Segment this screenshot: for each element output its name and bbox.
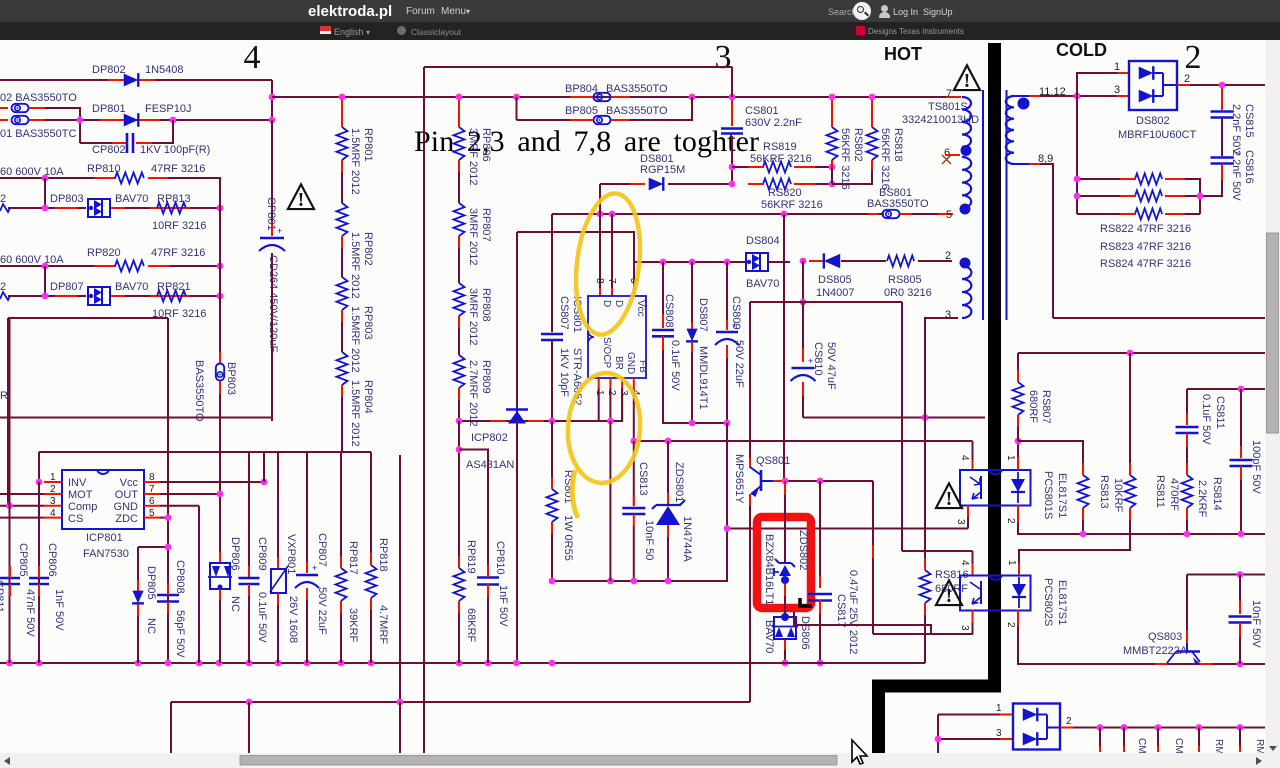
svg-text:68KRF: 68KRF: [465, 608, 477, 643]
svg-text:630V 2.2nF: 630V 2.2nF: [745, 117, 802, 129]
vertical x39 to pin1: [38, 452, 40, 482]
verticals to bottom edge: [170, 702, 172, 753]
capacitor CP805: [0, 577, 20, 580]
pin2 wire left: [0, 493, 44, 495]
junction dots y214: [597, 211, 604, 218]
svg-text:DS806: DS806: [799, 616, 811, 650]
shunt ref ICP802 AS431AN: [490, 420, 506, 422]
pin7 wire right: [160, 493, 220, 495]
wire y581 dots: [549, 578, 556, 585]
transformer hot winding 2: [962, 157, 971, 208]
junction dot 1077,96: [1074, 93, 1081, 100]
junction dot 220,266: [217, 263, 224, 270]
vertical x264 up: [263, 452, 265, 482]
svg-text:ZDS801: ZDS801: [673, 462, 685, 502]
dual diode DS802 MBRF10U60CT: [1129, 61, 1177, 110]
yellow tail: [572, 470, 578, 518]
wire y262 Vcc rail: [634, 261, 745, 263]
svg-text:RS824 47RF 3216: RS824 47RF 3216: [1100, 258, 1191, 270]
svg-text:4.7MRF: 4.7MRF: [377, 605, 389, 644]
vertical x9 318-663: [9, 318, 11, 663]
resistor RP813: [157, 203, 186, 214]
resistor RP808: [458, 248, 460, 283]
capacitor CS817: [819, 481, 821, 586]
wire pin4 PCS802S y551: [972, 551, 974, 563]
svg-text:3: 3: [945, 309, 951, 321]
bead BS801: [868, 213, 878, 215]
junction dot x272 y97: [269, 94, 276, 101]
svg-text:50V 47uF: 50V 47uF: [825, 342, 837, 390]
wire DS pack pin3: [938, 738, 1002, 740]
horizontal scrollbar: [0, 753, 1265, 768]
wire corner x272 down: [271, 80, 273, 120]
cold bus y353: [1018, 352, 1265, 354]
capacitor CS815: [1221, 88, 1223, 110]
capacitor CP807 electrolytic: [306, 452, 308, 562]
svg-text:TS801S: TS801S: [928, 101, 968, 113]
vertical bus x220 segments: [219, 178, 221, 352]
svg-text:CS813: CS813: [637, 462, 649, 496]
svg-text:RP807: RP807: [480, 208, 492, 242]
svg-text:1: 1: [1005, 455, 1016, 461]
vertical scrollbar: [1265, 40, 1280, 768]
svg-text:!: !: [946, 488, 953, 510]
red annotation rectangle: [757, 517, 811, 608]
capacitor CS809 electrolytic: [726, 262, 728, 320]
wire y441 cold RS807: [972, 441, 974, 460]
cold bus y318: [1053, 317, 1265, 319]
svg-text:CM: CM: [1173, 738, 1184, 754]
resistor RS813 10KRF: [1078, 475, 1089, 508]
diode DP801: [124, 114, 139, 127]
svg-text:CS810: CS810: [812, 342, 824, 376]
pin5 wire right: [160, 517, 168, 519]
svg-text:RM: RM: [1213, 739, 1224, 755]
svg-text:CS: CS: [68, 513, 83, 525]
junction dot 732,167: [729, 164, 736, 171]
resistor RP803: [341, 248, 343, 277]
resistor RS805 row: [887, 256, 914, 267]
pin4 wire left: [0, 517, 44, 519]
junction dots y421: [456, 418, 463, 425]
wire DP802 row: [0, 79, 120, 81]
junction dot 45,266: [42, 263, 49, 270]
diode DP805 NC: [137, 547, 139, 590]
svg-text:26V 1608: 26V 1608: [287, 596, 299, 643]
svg-text:BAS3550TO: BAS3550TO: [867, 198, 929, 210]
resistor RP809: [458, 328, 460, 355]
junction dot x272 y120: [269, 117, 276, 124]
wire DP807 row: [0, 292, 10, 300]
vertical IC pin2 to 581: [609, 421, 611, 581]
svg-text:3MRF 2012: 3MRF 2012: [467, 288, 479, 345]
wire y625 step: [794, 612, 931, 634]
capacitor CP801 electrolytic: [271, 120, 273, 232]
svg-text:2.7MRF 2012: 2.7MRF 2012: [467, 360, 479, 427]
svg-text:EL817S1: EL817S1: [1056, 473, 1068, 518]
svg-text:COLD: COLD: [1056, 40, 1107, 60]
dual diode DP803 BAV70: [88, 199, 110, 217]
svg-text:OUT: OUT: [115, 489, 139, 501]
svg-text:3: 3: [996, 728, 1002, 739]
optocoupler PCS802S EL817S1: [960, 576, 1031, 611]
svg-text:4: 4: [959, 560, 970, 566]
secondary top lead: [1014, 95, 1029, 97]
junction dot 803,261: [800, 258, 807, 265]
wire up to DS802 pin1: [1077, 73, 1117, 96]
svg-text:CP811: CP811: [0, 580, 5, 613]
svg-text:CS816: CS816: [1243, 150, 1255, 184]
wire y302: [750, 301, 902, 303]
svg-text:EL817S1: EL817S1: [1056, 580, 1068, 625]
svg-text:RS820: RS820: [768, 187, 802, 199]
vertical x938: [937, 715, 939, 754]
svg-text:CP801: CP801: [265, 197, 277, 231]
transformer hot winding 3: [962, 266, 971, 318]
svg-text:56KRF 3216: 56KRF 3216: [750, 153, 812, 165]
resistor RS807 680RF: [1017, 353, 1019, 370]
svg-text:1W 0R55: 1W 0R55: [562, 515, 574, 561]
junction dot 220,208: [217, 205, 224, 212]
junction dot 925,417: [922, 414, 929, 421]
svg-text:RP809: RP809: [480, 360, 492, 394]
svg-text:2.2KRF: 2.2KRF: [1196, 480, 1208, 518]
vertical x727 through 529 corner 581: [552, 441, 727, 581]
svg-text:BP803: BP803: [225, 362, 237, 395]
svg-text:CP805: CP805: [17, 543, 29, 577]
svg-text:1KV 100pF(R): 1KV 100pF(R): [140, 144, 210, 156]
junction dot 727,529: [724, 525, 731, 532]
junction dot 45,296: [42, 293, 49, 300]
svg-text:DP807: DP807: [50, 281, 84, 293]
svg-text:1N5408: 1N5408: [145, 64, 184, 76]
svg-text:CS807: CS807: [558, 296, 570, 330]
wire RS807 to RS813: [1018, 441, 1083, 463]
svg-text:Pin 2,3 and 7,8 are toghte: Pin 2,3 and 7,8 are toghter: [414, 125, 759, 158]
capacitor CP808: [157, 594, 179, 597]
resistor RP804: [341, 322, 343, 352]
wire y417 CS810 bottom: [803, 417, 985, 419]
diode DS807 MMDL914T1: [691, 262, 693, 322]
svg-text:R: R: [0, 390, 8, 402]
capacitor 10nF 50V: [1239, 575, 1241, 602]
svg-text:2: 2: [1185, 40, 1202, 76]
svg-text:RM: RM: [1254, 739, 1265, 755]
svg-text:RGP15M: RGP15M: [640, 164, 685, 176]
vertical x39 pin1 down: [38, 482, 40, 663]
svg-text:MMBT2222A: MMBT2222A: [1123, 645, 1188, 657]
capacitor CS808: [662, 262, 664, 314]
resistor RS801: [551, 421, 553, 487]
PCS801S pin1 wire: [1017, 457, 1019, 470]
beads BP804 BP805 loop: [516, 97, 518, 120]
wire pin 11.12 to DS802 pin3: [1040, 95, 1117, 97]
svg-text:2.2nF 50V: 2.2nF 50V: [1230, 104, 1242, 155]
svg-text:CS811: CS811: [1214, 396, 1226, 429]
svg-text:GND: GND: [114, 501, 139, 513]
pin8 wire right: [160, 481, 264, 483]
capacitor CS811: [1186, 389, 1188, 413]
resistor RS811 470RF: [1129, 353, 1131, 463]
cold bus y534: [1017, 533, 1265, 535]
junction dot 832,167: [829, 164, 836, 171]
svg-text:3: 3: [955, 519, 966, 525]
svg-text:QS801: QS801: [756, 455, 790, 467]
vertical pins 8 7 to IC: [599, 214, 601, 288]
svg-text:1KV 10pF: 1KV 10pF: [558, 348, 570, 397]
bead BP803 BAS3550TO: [219, 352, 221, 364]
diode DP802: [124, 74, 139, 87]
diode DS801 row y184: [600, 183, 643, 185]
vertical x517 down: [516, 232, 518, 421]
resistor RS802: [831, 100, 833, 127]
svg-text:10nF 50: 10nF 50: [643, 520, 655, 560]
svg-text:RP818: RP818: [377, 538, 389, 572]
zener ZDS802 BZX84B16LT1: [784, 481, 786, 495]
capacitor CP802 loop: [80, 142, 122, 144]
svg-text:BP805: BP805: [565, 105, 598, 117]
svg-text:RP821: RP821: [157, 281, 191, 293]
svg-text:RP810: RP810: [87, 163, 121, 175]
vertical x400: [399, 455, 401, 702]
junction dot 45,208: [42, 205, 49, 212]
svg-text:BAV70: BAV70: [763, 620, 775, 653]
IC bottom pin stubs: [598, 378, 600, 388]
yellow ellipse around pins 8 7: [569, 190, 648, 338]
wire DS801 corner: [599, 184, 601, 214]
svg-text:1N4007: 1N4007: [816, 287, 855, 299]
capacitor CP806: [29, 577, 49, 580]
wire box top y452: [39, 451, 371, 453]
resistor RS819 row: [732, 166, 762, 168]
svg-text:3MRF 2012: 3MRF 2012: [467, 128, 479, 185]
svg-text:8: 8: [594, 278, 605, 284]
resistor RP801: [341, 100, 343, 127]
svg-text:RS805: RS805: [888, 274, 922, 286]
warning triangle top right: [954, 65, 980, 90]
svg-text:470RF: 470RF: [1168, 478, 1180, 511]
bus dots y663: [6, 660, 13, 667]
svg-text:RP804: RP804: [362, 380, 374, 414]
svg-text:MBRF10U60CT: MBRF10U60CT: [1118, 129, 1197, 141]
pin6 wire right: [160, 505, 199, 507]
transformer core line hot: [982, 90, 984, 320]
svg-text:2: 2: [1005, 622, 1016, 628]
svg-text:RP801: RP801: [362, 128, 374, 162]
svg-text:CP807: CP807: [316, 533, 328, 567]
svg-text:RP802: RP802: [362, 232, 374, 266]
svg-text:BAV70: BAV70: [115, 193, 148, 205]
junction dot 220,296: [217, 293, 224, 300]
capacitor CS801: [731, 100, 733, 126]
svg-text:DS804: DS804: [746, 235, 780, 247]
wire corner 732 y67: [731, 67, 733, 97]
wire DP803 row: [8, 207, 86, 209]
svg-text:CS815: CS815: [1243, 104, 1255, 138]
PCS802S pin1 red: [1018, 563, 1020, 575]
svg-text:CM: CM: [1136, 738, 1147, 754]
svg-text:2: 2: [1005, 518, 1016, 524]
wire DS802 out y85: [1190, 84, 1265, 86]
warning triangle PCS802S: [936, 580, 962, 605]
pin3 wire left: [0, 505, 44, 507]
svg-text:BR: BR: [613, 356, 624, 370]
svg-text:FB: FB: [637, 360, 648, 373]
wire y529: [727, 528, 968, 530]
svg-text:60 600V 10A: 60 600V 10A: [0, 166, 64, 178]
svg-text:RP817: RP817: [347, 541, 359, 575]
svg-text:39KRF: 39KRF: [347, 608, 359, 643]
wire transformer pin3 down: [925, 318, 958, 551]
svg-text:47RF 3216: 47RF 3216: [151, 247, 205, 259]
svg-text:VXP801: VXP801: [285, 534, 297, 574]
junction dot 820,663: [817, 660, 824, 667]
resistor RP807: [458, 172, 460, 203]
wire y727 bottom right: [1073, 727, 1265, 729]
transformer secondary winding: [1006, 96, 1014, 164]
svg-text:5: 5: [946, 209, 952, 221]
svg-text:PCS801S: PCS801S: [1042, 471, 1054, 519]
warning triangle near CP801: [288, 184, 314, 209]
resistor RP806: [458, 100, 460, 127]
svg-text:INV: INV: [68, 477, 87, 489]
svg-text:AS431AN: AS431AN: [466, 459, 514, 471]
svg-text:CP806: CP806: [46, 543, 58, 577]
wire RP804 bottom: [341, 397, 343, 452]
junction dot 459,449: [456, 446, 463, 453]
svg-text:01 BAS3550TC: 01 BAS3550TC: [0, 128, 76, 140]
warning triangle PCS801S: [936, 483, 962, 508]
svg-text:!: !: [946, 585, 953, 607]
resistor RP821: [157, 291, 186, 302]
svg-text:2: 2: [1066, 716, 1072, 727]
svg-text:GND: GND: [625, 352, 636, 374]
second bus y702: [171, 701, 750, 703]
junction dot 727,423: [724, 420, 731, 427]
svg-text:D: D: [613, 300, 624, 307]
resistor RP818 4.7MRF: [370, 452, 372, 565]
vertical x803 CS810: [802, 261, 804, 302]
svg-text:FESP10J: FESP10J: [145, 103, 191, 115]
svg-text:2: 2: [0, 193, 6, 205]
svg-text:3: 3: [715, 40, 732, 76]
wire RP810 row: [0, 177, 112, 179]
svg-text:3MRF 2012: 3MRF 2012: [467, 208, 479, 265]
vertical x8 318-505: [7, 318, 9, 506]
svg-text:3: 3: [1114, 84, 1120, 96]
svg-text:50V 22uF: 50V 22uF: [733, 340, 745, 388]
pin 2 stub: [1177, 84, 1190, 86]
svg-text:56pF 50V: 56pF 50V: [174, 610, 186, 658]
secondary bottom lead 8,9: [1014, 163, 1029, 165]
junction dots y262: [660, 259, 667, 266]
transistor QS801 MPS651Y: [760, 470, 763, 491]
svg-text:RS823 47RF 3216: RS823 47RF 3216: [1100, 241, 1191, 253]
svg-text:DP801: DP801: [92, 103, 126, 115]
svg-text:MMDL914T1: MMDL914T1: [697, 346, 709, 410]
junction dot 692,423: [689, 420, 696, 427]
svg-text:BP804: BP804: [565, 83, 598, 95]
svg-text:100pF 50V: 100pF 50V: [1250, 440, 1262, 494]
svg-text:NC: NC: [145, 618, 157, 634]
svg-text:02 BAS3550TO: 02 BAS3550TO: [0, 92, 77, 104]
svg-text:ZDC: ZDC: [115, 513, 138, 525]
svg-text:!: !: [298, 189, 305, 211]
vertical x902: [901, 302, 903, 551]
junction dot: [170, 117, 177, 124]
svg-text:4: 4: [959, 455, 970, 461]
svg-text:Vcc: Vcc: [120, 477, 139, 489]
RS811 bottom wire to PCS802 pin1: [1019, 520, 1130, 563]
bottom stub wires with labels: [1099, 728, 1101, 747]
long vertical x784: [783, 214, 785, 481]
svg-text:RP819: RP819: [465, 540, 477, 574]
wire y551 to optos: [925, 550, 973, 552]
QS801 base wire y481: [773, 480, 785, 482]
wire DP805 hanger: [138, 546, 168, 548]
pin 6 blue dot: [961, 145, 972, 156]
svg-text:ZDS802: ZDS802: [797, 530, 809, 570]
wire top y67: [424, 66, 732, 68]
svg-text:!: !: [964, 70, 971, 92]
transformer TS801S hot winding 1: [962, 97, 971, 147]
svg-text:2.2nF 50V: 2.2nF 50V: [1230, 150, 1242, 201]
dual diode DP807 BAV70: [88, 287, 110, 305]
wire CS816 bottom corner: [1200, 180, 1222, 196]
svg-text:RS811: RS811: [1154, 475, 1166, 508]
wire x873 down: [872, 481, 874, 634]
svg-text:BAS3550TO: BAS3550TO: [606, 83, 668, 95]
svg-text:47RF 3216: 47RF 3216: [151, 163, 205, 175]
svg-text:DP806: DP806: [229, 537, 241, 571]
svg-text:2: 2: [606, 390, 617, 396]
wire y441 long: [634, 440, 973, 442]
resistors RS822 RS823 RS824 parallel: [1077, 178, 1134, 180]
svg-text:3: 3: [959, 625, 970, 631]
junction dot: [77, 117, 84, 124]
junction dots y97: [339, 94, 346, 101]
svg-text:NC: NC: [229, 596, 241, 612]
svg-text:S/OCP: S/OCP: [601, 337, 612, 368]
svg-text:1: 1: [1114, 61, 1120, 73]
svg-text:MOT: MOT: [68, 489, 93, 501]
svg-text:60 600V 10A: 60 600V 10A: [0, 254, 64, 266]
svg-text:RS819: RS819: [763, 141, 797, 153]
svg-text:7: 7: [606, 278, 617, 284]
svg-text:RP803: RP803: [362, 306, 374, 340]
wire y574 top right: [1187, 574, 1265, 576]
transformer core line cold: [1006, 90, 1008, 320]
resistor RP810: [115, 173, 144, 184]
PCS802S pin2 wire: [1017, 610, 1019, 626]
isolation barrier: [879, 43, 995, 753]
svg-text:RP813: RP813: [157, 193, 191, 205]
PCS802S pin3 wire: [972, 610, 974, 623]
svg-text:DS807: DS807: [697, 298, 709, 332]
black corner annotation: [800, 598, 812, 606]
pin2 stub DS pack: [1060, 727, 1073, 729]
bead BP804 on y97: [570, 96, 593, 98]
dual diode DP806 NC: [219, 552, 221, 563]
svg-text:DP805: DP805: [145, 566, 157, 600]
svg-text:QS803: QS803: [1148, 631, 1182, 643]
pin 2 blue dot: [960, 258, 971, 269]
zener ZDS801 1N4744A: [667, 441, 669, 503]
svg-text:BZX84B16LT1: BZX84B16LT1: [763, 534, 775, 605]
PCS801S pin3 wire: [967, 505, 969, 517]
capacitor CS816: [1221, 118, 1223, 157]
svg-text:4: 4: [244, 40, 261, 76]
